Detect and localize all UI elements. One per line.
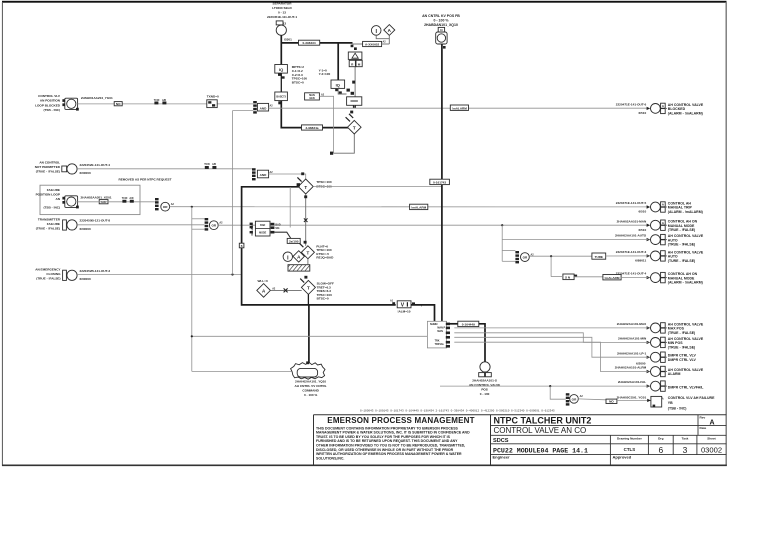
function block IQ1 — [275, 65, 288, 74]
svg-text:TRKVAL: TRKVAL — [435, 343, 445, 346]
svg-text:T: T — [304, 185, 307, 190]
position feedback input block — [436, 32, 447, 44]
svg-text:2220471E-141-OUT-3: 2220471E-141-OUT-3 — [616, 250, 647, 254]
auto manual stack block — [427, 321, 446, 348]
wire T3 bottom chain down — [305, 194, 307, 246]
svg-text:2HAH02AA101-MIN: 2HAH02AA101-MIN — [618, 337, 647, 341]
wire AND1 feed from below — [233, 110, 254, 112]
svg-text:TRANSMITTER: TRANSMITTER — [38, 217, 61, 221]
svg-text:Engineer: Engineer — [493, 455, 511, 460]
svg-text:2220451E-111-OUT-1: 2220451E-111-OUT-1 — [267, 15, 297, 19]
OR gate O4 input ticks — [566, 393, 570, 395]
svg-text:Sheet: Sheet — [707, 437, 715, 441]
output row 2HAH02AA101-FAL — [618, 380, 704, 391]
wire station output thick — [447, 323, 458, 325]
svg-text:SOLUTIONS,INC.: SOLUTIONS,INC. — [316, 456, 344, 460]
output row 2HAH02AA101-MAN — [617, 219, 698, 232]
svg-text:6/00000: 6/00000 — [80, 171, 91, 175]
wire input 1 row — [78, 103, 254, 105]
svg-text:IQ: IQ — [336, 83, 340, 88]
svg-text:NO: NO — [116, 102, 121, 106]
svg-text:DMPR CTRL VLV: DMPR CTRL VLV — [668, 354, 697, 358]
wire WLL row — [270, 289, 301, 291]
svg-text:0-398434: 0-398434 — [303, 41, 316, 45]
svg-text:(TSB - !NC): (TSB - !NC) — [44, 206, 61, 210]
svg-text:(TRUE - !FALSE): (TRUE - !FALSE) — [668, 345, 695, 349]
signal label box 0-164449 — [458, 321, 479, 326]
wire IQ2 down to divider cluster — [338, 88, 346, 94]
svg-text:2HAH02AA101-FAL: 2HAH02AA101-FAL — [618, 380, 646, 384]
svg-text:FAILURE: FAILURE — [47, 222, 60, 226]
svg-text:DMPR CTRL VLV: DMPR CTRL VLV — [668, 358, 697, 362]
svg-text:OR: OR — [523, 256, 528, 260]
wire vertical from OR1 junction down — [191, 207, 193, 372]
svg-text:FAILURE: FAILURE — [47, 188, 60, 192]
frame top border — [2, 1, 727, 3]
svg-text:BASC73: BASC73 — [276, 96, 286, 99]
function block BASC73 — [275, 92, 288, 101]
bus1 wire blocked alarm — [269, 107, 649, 109]
svg-text:13: 13 — [283, 22, 287, 26]
svg-text:BAD: BAD — [275, 223, 280, 226]
wire label to diamond — [382, 43, 390, 45]
svg-text:Rev: Rev — [700, 416, 706, 420]
inline ticks TC/D A/D — [154, 102, 158, 105]
signal label box 2x100 — [287, 238, 300, 243]
svg-text:CTLS: CTLS — [624, 447, 636, 452]
junction on fail row — [549, 385, 551, 387]
svg-text:REMOVED AS PER NTPC REQUEST: REMOVED AS PER NTPC REQUEST — [119, 177, 172, 181]
svg-text:B: B — [241, 245, 243, 248]
svg-text:2HAH02AA101-LP-1: 2HAH02AA101-LP-1 — [617, 351, 647, 355]
NO label box input 3 — [99, 200, 108, 204]
svg-text:AH CNTRL VV CNTRL: AH CNTRL VV CNTRL — [295, 384, 327, 388]
svg-text:TURE: TURE — [595, 255, 603, 259]
svg-text:2220452E-141-OUT-4: 2220452E-141-OUT-4 — [80, 163, 111, 167]
limiter glyph box R — [349, 60, 355, 66]
wire input 2 row — [77, 168, 252, 170]
fan wire min pos staircase — [454, 333, 648, 343]
svg-text:Task: Task — [682, 437, 689, 441]
wire lower bus to actuator — [192, 370, 291, 372]
input 4 text block — [36, 217, 61, 230]
svg-text:(TRUE - !FALSE): (TRUE - !FALSE) — [36, 277, 60, 281]
svg-text:TXND=0: TXND=0 — [207, 94, 219, 98]
wire into SN — [551, 276, 563, 278]
signal label box on feedback line — [302, 125, 323, 130]
svg-text:IQ: IQ — [279, 67, 283, 72]
svg-text:OR: OR — [163, 205, 168, 209]
wire sum block to bus1 — [353, 105, 355, 108]
svg-text:2HABDAN101_XQ10: 2HABDAN101_XQ10 — [424, 23, 458, 27]
svg-text:2HAH05CG91_YG01: 2HAH05CG91_YG01 — [617, 395, 647, 399]
wire SN to mALARM box — [574, 276, 603, 278]
wire from A diamond down — [388, 35, 390, 44]
output failure block — [651, 396, 662, 407]
svg-text:0 - 100 %: 0 - 100 % — [304, 393, 317, 397]
transfer diamond T4 — [301, 246, 314, 259]
wire input 4 row — [77, 224, 204, 226]
input 4 source circle — [63, 220, 67, 230]
svg-text:(TURE - !FALSE): (TURE - !FALSE) — [668, 259, 695, 263]
fan wire alarm staircase — [454, 342, 648, 371]
svg-text:MAN P: MAN P — [437, 326, 445, 329]
AND gate A1 input ticks — [253, 101, 257, 103]
svg-text:CLOSING: CLOSING — [46, 272, 61, 276]
svg-text:S N: S N — [565, 276, 571, 280]
wire junction drop from feedback line — [289, 187, 291, 228]
svg-text:A: A — [709, 419, 714, 426]
stack block right pin ticks — [446, 323, 450, 326]
svg-text:LT0660 SELD: LT0660 SELD — [272, 6, 292, 10]
pin tick below BASC73 — [278, 101, 281, 104]
fan wire max pos — [454, 327, 648, 329]
wire fail down to OR4 — [550, 386, 566, 399]
OR gate O2 — [209, 221, 218, 230]
svg-text:0-164449: 0-164449 — [462, 323, 475, 327]
svg-text:OR: OR — [211, 224, 216, 228]
position feedback text top right — [422, 14, 460, 27]
wire thick command drop — [308, 305, 310, 364]
failure stack right ticks — [271, 223, 275, 226]
svg-text:2x/100: 2x/100 — [289, 239, 299, 243]
OR gate O4 — [570, 395, 579, 404]
input 3 digital input block — [65, 196, 78, 208]
removed scope rectangle — [40, 185, 140, 214]
svg-text:0 - 13: 0 - 13 — [278, 10, 286, 14]
svg-text:2HAH02AA101-MAX: 2HAH02AA101-MAX — [617, 322, 647, 326]
IQ1 parameter text — [292, 65, 307, 85]
output row 2220471E-141-OUT-3 — [616, 250, 704, 263]
svg-text:6/00000: 6/00000 — [80, 227, 91, 231]
svg-text:A/D: A/D — [129, 197, 133, 200]
svg-text:Approved: Approved — [613, 455, 632, 460]
svg-text:2HAH02AA101-MAN: 2HAH02AA101-MAN — [617, 219, 647, 223]
pin B marker on thick wire — [239, 243, 244, 248]
input 2 source circle — [62, 166, 67, 172]
svg-text:Y-2=100: Y-2=100 — [319, 72, 331, 76]
wire input 3 row — [78, 201, 155, 203]
OR gate O1 input ticks — [155, 198, 159, 200]
parameter text Y block — [319, 68, 331, 76]
wire NO to failure output — [617, 400, 651, 402]
failure stack left ticks — [250, 223, 253, 225]
svg-text:AND: AND — [260, 106, 267, 110]
wire triangle chain down — [354, 67, 356, 97]
svg-text:2HAH02AA101_YQ10: 2HAH02AA101_YQ10 — [295, 380, 326, 384]
OR gate O2 input ticks — [205, 218, 209, 220]
svg-text:2HAH02AA201_XG01: 2HAH02AA201_XG01 — [81, 196, 112, 200]
T5 parameter text — [317, 282, 334, 301]
frame bottom border — [2, 464, 727, 466]
output row 2HAH02AA101-LP-1 — [617, 351, 697, 362]
svg-text:(TRUE - !FALSE): (TRUE - !FALSE) — [36, 226, 60, 230]
svg-text:T: T — [353, 125, 356, 130]
svg-text:03002: 03002 — [701, 445, 722, 454]
junction node on bus2 — [191, 206, 193, 208]
position feedback flag box — [438, 27, 444, 32]
T3 input arrows — [297, 177, 301, 181]
wire mALARM to output — [621, 276, 648, 278]
transfer diamond T5 — [301, 280, 315, 294]
POS text block — [469, 379, 500, 397]
inline ticks input 3 — [122, 200, 126, 203]
!mALARM label box row E — [603, 275, 621, 280]
svg-text:POSITION LOOP: POSITION LOOP — [36, 192, 60, 196]
svg-text:6/510: 6/510 — [638, 111, 646, 115]
svg-text:OR: OR — [572, 397, 577, 401]
svg-text:COMMAND: COMMAND — [302, 389, 319, 393]
svg-text:REJQ=BAD: REJQ=BAD — [316, 256, 334, 260]
svg-text:(TSB - !NC): (TSB - !NC) — [44, 108, 61, 112]
svg-text:(TRUE - !FALSE): (TRUE - !FALSE) — [668, 331, 695, 335]
indicator circle I mid — [283, 252, 292, 261]
AND gate A2 input ticks — [252, 168, 256, 170]
bus2 wire manual trip alarm — [170, 206, 649, 208]
svg-text:NOT PERMITTED: NOT PERMITTED — [35, 165, 61, 169]
wire IQ1 to BASC73 — [280, 73, 282, 92]
frame right border — [725, 2, 727, 466]
wire thick drop to IQ2 — [337, 43, 339, 80]
indicator circle I top — [371, 26, 381, 36]
svg-text:(TSB - !NC): (TSB - !NC) — [668, 407, 687, 411]
svg-text:6/510: 6/510 — [638, 228, 646, 232]
multiply cross on WLL wire — [284, 288, 288, 292]
svg-text:TC/D: TC/D — [122, 197, 128, 200]
limiter glyph box M — [356, 60, 362, 66]
svg-text:(TRUE - !FALSE): (TRUE - !FALSE) — [668, 243, 695, 247]
wire long vertical bus x232 — [232, 111, 234, 275]
svg-text:WLL=0: WLL=0 — [257, 279, 268, 283]
POS indicator circle — [480, 362, 490, 372]
svg-text:(ALARM - !mALARM): (ALARM - !mALARM) — [668, 111, 703, 115]
!mALARM label box on bus2 — [410, 204, 428, 209]
T2 input arrows — [346, 117, 350, 121]
svg-text:ALARM: ALARM — [668, 372, 681, 376]
input 3 text block — [36, 188, 61, 210]
svg-text:POS: POS — [481, 388, 488, 392]
title block outline — [314, 415, 727, 466]
svg-text:2220452B-141-OUT-3: 2220452B-141-OUT-3 — [80, 269, 111, 273]
V block pin ticks — [392, 302, 395, 305]
wire T2 output down-left — [334, 134, 355, 153]
svg-text:SIG: SIG — [275, 227, 279, 230]
T4 input arrows — [300, 243, 304, 247]
svg-text:6/2000: 6/2000 — [636, 361, 646, 365]
T4 parameter text — [316, 244, 334, 259]
svg-text:Date: Date — [700, 426, 707, 430]
svg-text:BTSC=0: BTSC=0 — [292, 81, 304, 85]
frame left border — [1, 2, 3, 466]
sum block — [347, 97, 362, 106]
svg-text:0-100043 0-100145 0-161743 0-1: 0-100043 0-100145 0-161743 0-164449 0-19… — [360, 410, 555, 413]
svg-text:MODE: MODE — [259, 232, 267, 235]
svg-text:CONTROL VLV AH FAILURE: CONTROL VLV AH FAILURE — [668, 396, 715, 400]
svg-text:AN POSITION: AN POSITION — [40, 99, 61, 103]
wire from I circle down — [376, 35, 389, 39]
svg-text:0-161743: 0-161743 — [433, 181, 446, 185]
pin tick under feedback block — [443, 46, 446, 49]
pin ticks on thick line end — [351, 45, 354, 48]
wire thick position feedback vertical — [441, 44, 443, 321]
failure stack output wire to scaler — [271, 231, 275, 234]
actuator command text — [295, 380, 327, 398]
transfer diamond T2 — [348, 120, 362, 134]
svg-text:CONTROL VLV: CONTROL VLV — [38, 94, 61, 98]
svg-text:A/D: A/D — [212, 163, 216, 166]
svg-text:EMERSON PROCESS MANAGEMENT: EMERSON PROCESS MANAGEMENT — [327, 416, 474, 425]
operator station hatch box — [288, 265, 310, 271]
sum block output tick — [353, 106, 356, 109]
svg-text:(ALARM - !mALARM): (ALARM - !mALARM) — [668, 210, 703, 214]
svg-text:TRK: TRK — [435, 340, 440, 343]
output row 2220471E-141-OUT-6 — [616, 103, 704, 116]
svg-text:LOOP BLOCKED: LOOP BLOCKED — [35, 103, 61, 107]
svg-text:B301: B301 — [284, 37, 292, 41]
svg-text:BTSC=0: BTSC=0 — [317, 297, 329, 301]
input 5 text block — [35, 268, 61, 281]
svg-text:SDCS: SDCS — [493, 438, 509, 444]
wire thick BASC73 down and right — [281, 101, 348, 128]
svg-text:CONTROL VALVE AN CO: CONTROL VALVE AN CO — [494, 426, 587, 435]
wire thick station boundary left — [242, 187, 396, 305]
svg-text:!mALARM: !mALARM — [452, 106, 467, 110]
svg-text:TC/D: TC/D — [154, 99, 160, 102]
signal label box 0-161743 — [430, 179, 450, 184]
rate limiter triangle block — [348, 52, 362, 59]
junction on emergency wire — [231, 273, 233, 275]
alarm diamond A top — [384, 25, 395, 36]
svg-text:6: 6 — [658, 445, 663, 455]
TURE label box — [592, 253, 606, 259]
svg-text:3: 3 — [683, 445, 688, 455]
svg-text:BAD: BAD — [260, 224, 265, 227]
svg-text:MAN: MAN — [437, 330, 443, 333]
svg-text:Drg: Drg — [658, 437, 663, 441]
svg-text:2HSHI01AA204_YG01: 2HSHI01AA204_YG01 — [81, 96, 113, 100]
wire T5 output to command — [307, 294, 309, 305]
svg-text:A: A — [662, 398, 664, 401]
wire T3 right to tracking bus — [313, 186, 442, 188]
svg-text:(ALARM - !mALARM): (ALARM - !mALARM) — [668, 281, 703, 285]
wire T4 to hatch — [307, 259, 309, 265]
actuator cloud symbol — [291, 362, 325, 379]
svg-text:6/00000: 6/00000 — [80, 277, 91, 281]
pin tick on chain — [352, 81, 355, 84]
actuator inner block — [297, 368, 317, 377]
node MAN GEN block — [305, 93, 320, 100]
svg-text:AN CNTRL KV POS FB: AN CNTRL KV POS FB — [422, 14, 460, 18]
!mALARM label box on bus1 — [450, 105, 468, 110]
svg-text:0 - 100: 0 - 100 — [480, 392, 490, 396]
signal label box A-XX0602 — [363, 41, 382, 46]
output row 2220471E-141-OUT-4 — [616, 272, 703, 285]
svg-text:M: M — [358, 62, 361, 66]
svg-text:TC/D: TC/D — [204, 163, 210, 166]
wire AND2 output to T3 top — [269, 174, 306, 179]
wire into A-XX0602 label — [353, 43, 363, 45]
node separator input text — [267, 1, 297, 19]
svg-text:YB: YB — [668, 401, 673, 405]
wire track bus to stack — [192, 335, 428, 337]
svg-text:!ALM=10: !ALM=10 — [398, 310, 411, 314]
wire TURE to output — [606, 255, 649, 257]
bus3 wire manual mode — [218, 224, 648, 226]
fan wire fail row — [440, 385, 648, 387]
T5 input arrows — [300, 279, 304, 283]
svg-text:PCU22 MODULE04 PAGE 14.1: PCU22 MODULE04 PAGE 14.1 — [493, 448, 588, 455]
wire input 5 row emergency — [77, 274, 242, 276]
svg-text:(TRUE - !FALSE): (TRUE - !FALSE) — [36, 170, 60, 174]
wire OR4 to NO box — [578, 398, 606, 401]
svg-text:DMPR CTRL VLVFAIL: DMPR CTRL VLVFAIL — [668, 386, 705, 390]
svg-text:2HAH02AA101-AUTO: 2HAH02AA101-AUTO — [615, 234, 647, 238]
svg-text:T: T — [307, 286, 310, 291]
T3 parameter text — [316, 180, 332, 188]
inline ticks input 2 — [205, 166, 209, 169]
POS flag boxes — [479, 373, 485, 377]
output row 2HAH02AA101-MAX — [617, 322, 704, 335]
svg-text:AN: AN — [56, 197, 61, 201]
svg-text:A-XX0602: A-XX0602 — [365, 43, 380, 47]
svg-text:NO: NO — [609, 400, 614, 404]
wire thick top horizontal — [281, 42, 353, 44]
function block IQ2 — [331, 80, 345, 88]
wires into OR3 — [502, 250, 515, 252]
wire thick from B301 down — [280, 35, 282, 64]
svg-text:T: T — [307, 251, 310, 256]
svg-text:Drawing Number: Drawing Number — [617, 437, 643, 441]
svg-text:AH CONTROL VALVE: AH CONTROL VALVE — [668, 368, 704, 372]
title block disclaimer text — [316, 426, 470, 460]
OR gate O3 input ticks — [515, 251, 519, 253]
svg-text:2220471E-141-OUT-6: 2220471E-141-OUT-6 — [616, 103, 647, 107]
junction on track bus — [191, 335, 193, 337]
fan wire lp staircase — [454, 337, 648, 357]
pin tick at corner — [330, 152, 333, 155]
OR gate O1 — [161, 202, 170, 211]
wire auto row from junction — [501, 224, 503, 226]
velocity limit block V — [397, 301, 411, 308]
OR gate O3 — [521, 253, 530, 262]
output row 2HAH02AA101-AUTO — [615, 234, 704, 247]
svg-text:A/D: A/D — [162, 99, 166, 102]
AND gate A2 — [257, 170, 268, 178]
svg-text:2HAH02AA101-S: 2HAH02AA101-S — [472, 379, 497, 383]
NO label box input 1 — [114, 102, 122, 106]
svg-text:AND: AND — [260, 173, 267, 177]
IQ2 output ticks — [335, 89, 338, 91]
output row 2220471E-141-OUT-5 — [616, 201, 703, 214]
transfer diamond T3 — [298, 179, 313, 194]
input 2 text block — [35, 161, 61, 174]
svg-text:2220450B-121-OUT-8: 2220450B-121-OUT-8 — [80, 219, 111, 223]
svg-text:AN EMERGENCY: AN EMERGENCY — [35, 268, 61, 272]
separator transmitter circle B301 — [276, 25, 286, 35]
output row 2HAH02AA101-ALRM — [615, 366, 704, 377]
divider cluster marks — [347, 89, 350, 92]
svg-text:2HAH02AA101-ALRM: 2HAH02AA101-ALRM — [615, 366, 647, 370]
svg-text:2-98834a: 2-98834a — [305, 126, 318, 130]
svg-text:6/510: 6/510 — [638, 210, 646, 214]
wire thick to POS indicator — [479, 324, 485, 362]
svg-text:SEPARATOR: SEPARATOR — [273, 1, 293, 5]
input 5 source circle — [63, 270, 67, 280]
cross mark on chain — [304, 218, 308, 222]
separator flag box — [276, 21, 283, 25]
alarm diamond A mid — [293, 251, 304, 262]
SN latch block — [563, 274, 574, 280]
